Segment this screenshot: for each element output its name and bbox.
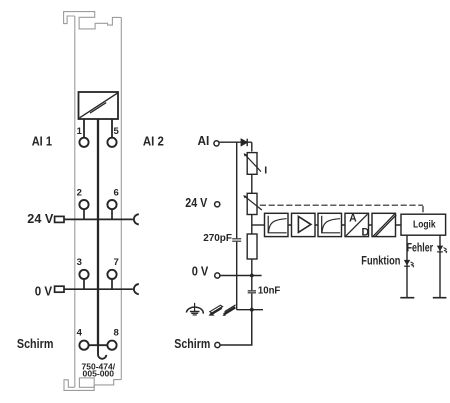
- svg-text:Schirm: Schirm: [174, 336, 210, 351]
- svg-text:2: 2: [77, 188, 82, 199]
- svg-text:1: 1: [77, 126, 83, 137]
- svg-text:0 V: 0 V: [35, 283, 53, 298]
- svg-text:A: A: [349, 212, 357, 224]
- svg-text:005-000: 005-000: [83, 368, 115, 378]
- svg-text:4: 4: [77, 327, 83, 338]
- svg-text:10nF: 10nF: [258, 286, 280, 297]
- svg-text:0 V: 0 V: [192, 264, 209, 279]
- svg-text:6: 6: [113, 188, 118, 199]
- svg-text:5: 5: [113, 126, 119, 137]
- svg-text:Funktion: Funktion: [361, 253, 400, 267]
- svg-text:AI 1: AI 1: [32, 134, 52, 149]
- svg-text:270pF: 270pF: [203, 233, 232, 244]
- svg-text:AI: AI: [198, 133, 210, 148]
- svg-text:AI 2: AI 2: [143, 134, 164, 149]
- svg-text:24 V: 24 V: [27, 211, 53, 226]
- svg-text:Logik: Logik: [413, 220, 436, 231]
- svg-text:7: 7: [113, 257, 118, 268]
- svg-text:I: I: [264, 164, 267, 176]
- svg-text:3: 3: [77, 257, 82, 268]
- svg-text:24 V: 24 V: [185, 195, 207, 210]
- svg-text:8: 8: [113, 327, 118, 338]
- svg-text:Schirm: Schirm: [17, 336, 54, 351]
- svg-text:D: D: [362, 226, 370, 238]
- svg-text:Fehler: Fehler: [407, 240, 434, 254]
